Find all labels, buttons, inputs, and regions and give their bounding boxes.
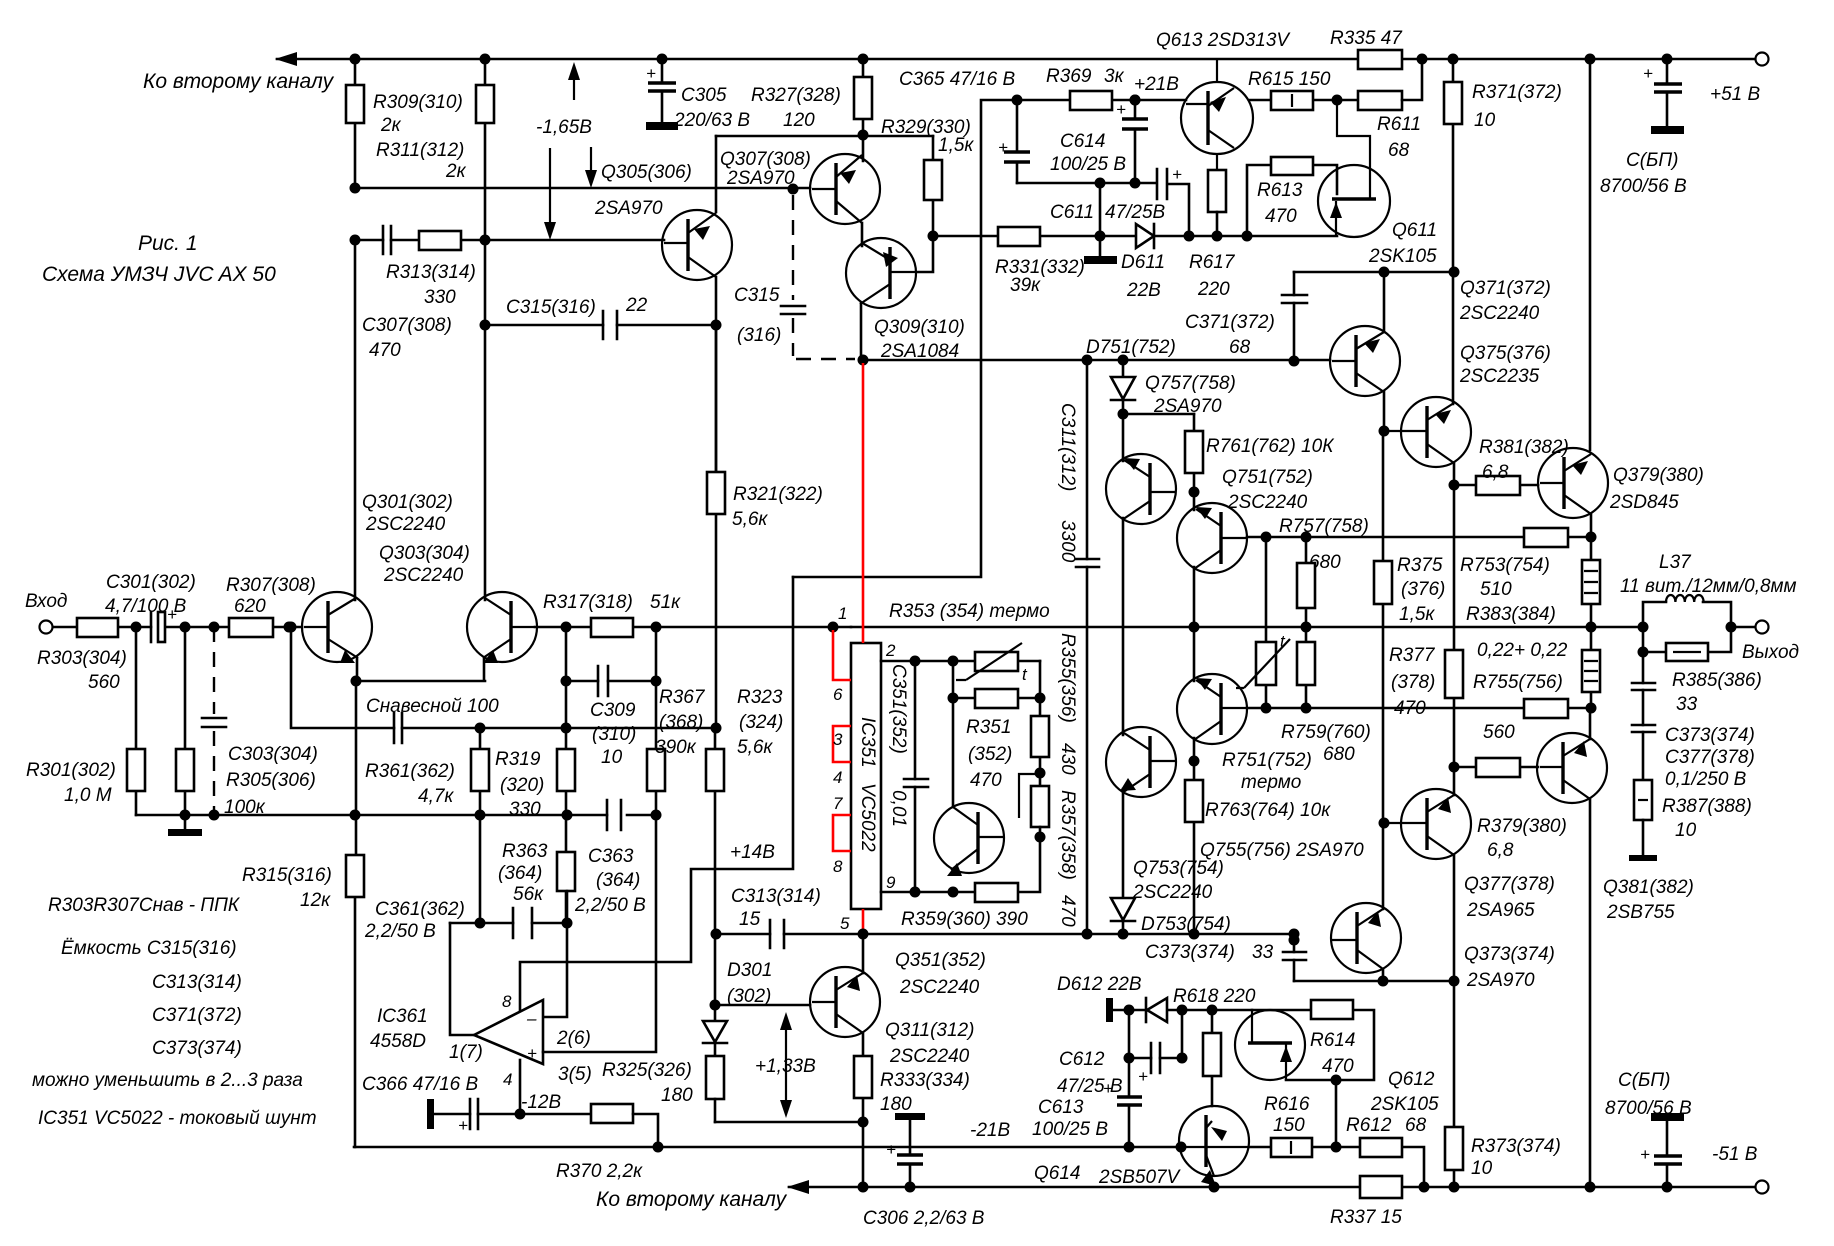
- thermistor R353: [953, 660, 1040, 663]
- svg-text:R755(756): R755(756): [1473, 672, 1563, 693]
- resistor R387: [1634, 780, 1652, 820]
- transistor Q611 (FET): [1318, 165, 1390, 237]
- capacitor C361: [450, 922, 567, 925]
- svg-text:можно уменьшить в 2...3 раза: можно уменьшить в 2...3 раза: [32, 1070, 303, 1091]
- svg-text:2SK105: 2SK105: [1368, 246, 1437, 267]
- svg-text:7: 7: [833, 794, 843, 813]
- resistor R355 (vertical): [1039, 698, 1042, 786]
- resistor R763: [1193, 761, 1196, 934]
- svg-text:220/63 В: 220/63 В: [673, 110, 750, 131]
- capacitor C373/C377 output: [1642, 652, 1645, 780]
- wire: pin9 line: [881, 891, 975, 894]
- resistor R370: [591, 1104, 633, 1123]
- svg-text:R335 47: R335 47: [1330, 28, 1403, 49]
- svg-text:(316): (316): [737, 325, 781, 346]
- wire: x716 Q305 collector: [715, 136, 718, 212]
- wire: Q373 C/E x1590: [1589, 708, 1592, 1187]
- svg-text:2SC2240: 2SC2240: [1459, 303, 1540, 324]
- svg-text:(378): (378): [1391, 672, 1435, 693]
- svg-text:10: 10: [1471, 1158, 1493, 1179]
- transistor Q753: [1177, 674, 1247, 744]
- svg-text:1,5к: 1,5к: [938, 135, 974, 156]
- svg-text:4,7/100 В: 4,7/100 В: [105, 596, 187, 617]
- svg-text:С(БП): С(БП): [1618, 1070, 1671, 1091]
- svg-text:+: +: [1116, 100, 1126, 119]
- diode D751: [1122, 360, 1125, 377]
- resistor R379: [1454, 766, 1538, 769]
- trimmer R357: [1031, 786, 1049, 827]
- svg-text:470: 470: [1057, 895, 1078, 927]
- wire: red pins7-8: [833, 815, 851, 851]
- resistor R361: [479, 728, 482, 815]
- svg-text:+51 В: +51 В: [1710, 84, 1761, 105]
- wire: C315-22 line y=325: [485, 324, 716, 327]
- transistor Q351: [934, 803, 1004, 873]
- svg-text:R753(754): R753(754): [1460, 555, 1550, 576]
- svg-text:470: 470: [1322, 1056, 1354, 1077]
- svg-text:L37: L37: [1659, 552, 1692, 573]
- svg-text:R369: R369: [1046, 66, 1092, 87]
- wire: Q371 C/E x1384: [1383, 272, 1386, 431]
- transistor Q751: [1177, 503, 1247, 573]
- svg-text:2SA965: 2SA965: [1466, 900, 1535, 921]
- svg-text:12к: 12к: [300, 890, 331, 911]
- wire: x716 Q305 emitter down: [715, 277, 718, 472]
- resistor R359: [975, 883, 1018, 902]
- svg-text:11 вит./12мм/0,8мм: 11 вит./12мм/0,8мм: [1620, 576, 1797, 597]
- svg-text:R379(380): R379(380): [1477, 816, 1567, 837]
- svg-text:1: 1: [838, 604, 847, 623]
- svg-text:2SC2240: 2SC2240: [383, 565, 464, 586]
- svg-text:IC361: IC361: [377, 1006, 428, 1027]
- resistor R305: [184, 627, 187, 815]
- capacitor C315 dashed branch plates: [781, 306, 805, 314]
- transistor Q373: [1537, 733, 1607, 803]
- svg-text:100/25 В: 100/25 В: [1032, 1119, 1108, 1140]
- wire: feedback rail y=815: [136, 814, 656, 817]
- capacitor C612: [1129, 1010, 1182, 1058]
- svg-text:Выход: Выход: [1742, 642, 1799, 663]
- resistor R323: [714, 728, 717, 1005]
- svg-text:Q612: Q612: [1388, 1069, 1435, 1090]
- svg-text:470: 470: [970, 770, 1002, 791]
- svg-text:-51 В: -51 В: [1712, 1144, 1758, 1165]
- svg-text:С(БП): С(БП): [1626, 150, 1679, 171]
- svg-text:Ко второму каналу: Ко второму каналу: [596, 1188, 788, 1211]
- svg-text:C305: C305: [681, 85, 727, 106]
- svg-text:2,2/50 В: 2,2/50 В: [364, 921, 436, 942]
- svg-text:R355(356): R355(356): [1057, 633, 1078, 723]
- svg-text:Q611: Q611: [1392, 220, 1437, 241]
- svg-text:2SC2235: 2SC2235: [1459, 366, 1540, 387]
- svg-text:R373(374): R373(374): [1471, 1136, 1561, 1157]
- transistor Q307: [810, 154, 880, 224]
- terminal input: [40, 621, 53, 634]
- svg-text:R303R307Снав - ППК: R303R307Снав - ППК: [48, 895, 241, 916]
- svg-text:R315(316): R315(316): [242, 865, 332, 886]
- svg-text:180: 180: [880, 1094, 912, 1115]
- resistor R303: [77, 618, 118, 637]
- wire: y414: [1123, 413, 1194, 416]
- svg-text:4: 4: [503, 1070, 512, 1089]
- svg-text:R325(326): R325(326): [602, 1060, 692, 1081]
- wire: pin4: [519, 1060, 522, 1114]
- svg-text:+: +: [998, 138, 1008, 157]
- svg-text:R614: R614: [1310, 1030, 1355, 1051]
- svg-text:10: 10: [1474, 110, 1496, 131]
- svg-text:R305(306): R305(306): [226, 770, 316, 791]
- capacitor C351: [914, 661, 917, 892]
- svg-text:R327(328): R327(328): [751, 85, 841, 106]
- svg-text:Q755(756) 2SA970: Q755(756) 2SA970: [1200, 840, 1364, 861]
- svg-text:39к: 39к: [1010, 275, 1041, 296]
- svg-text:C306 2,2/63 В: C306 2,2/63 В: [863, 1208, 985, 1229]
- svg-text:C363: C363: [588, 846, 634, 867]
- svg-text:R317(318): R317(318): [543, 592, 633, 613]
- svg-text:Схема УМЗЧ JVC AX 50: Схема УМЗЧ JVC AX 50: [42, 263, 276, 286]
- svg-text:Q614: Q614: [1034, 1163, 1080, 1184]
- svg-text:2SK105: 2SK105: [1370, 1094, 1439, 1115]
- transistor Q371: [1330, 326, 1400, 396]
- svg-text:C371(372): C371(372): [1185, 312, 1275, 333]
- svg-text:Q377(378): Q377(378): [1464, 874, 1555, 895]
- wire: y272: [1294, 271, 1454, 274]
- svg-text:Q379(380): Q379(380): [1613, 465, 1704, 486]
- svg-text:2SA970: 2SA970: [726, 168, 795, 189]
- resistor R761: [1193, 414, 1196, 492]
- thermistor R751: [1265, 537, 1268, 708]
- svg-text:2SA970: 2SA970: [1153, 396, 1222, 417]
- svg-text:220: 220: [1197, 279, 1230, 300]
- svg-text:120: 120: [783, 110, 815, 131]
- svg-text:620: 620: [234, 596, 266, 617]
- wire: x485 down to Q303 collector: [484, 240, 487, 600]
- wire: Snavesnoy feedback y=728: [291, 627, 716, 728]
- terminal +51V: [1756, 53, 1769, 66]
- svg-text:68: 68: [1229, 337, 1251, 358]
- transistor Q612 (FET): [1235, 1010, 1305, 1080]
- resistor R363: [565, 815, 568, 923]
- svg-text:C311(312): C311(312): [1057, 403, 1078, 491]
- svg-text:1(7): 1(7): [449, 1042, 483, 1063]
- resistor R757: [1305, 537, 1308, 627]
- transistor Q309: [846, 238, 916, 308]
- svg-text:+: +: [1640, 1145, 1650, 1164]
- svg-text:390к: 390к: [655, 737, 697, 758]
- svg-text:–: –: [526, 1009, 537, 1028]
- resistor R755: [1524, 699, 1568, 718]
- resistor R333: [862, 1033, 865, 1122]
- dashed C315 branch: [793, 195, 855, 359]
- svg-text:R618 220: R618 220: [1173, 986, 1256, 1007]
- svg-text:Q613 2SD313V: Q613 2SD313V: [1156, 30, 1291, 51]
- svg-text:+: +: [886, 1140, 896, 1159]
- resistor R335: [1358, 50, 1402, 69]
- wire: Q311 base: [715, 1004, 810, 1007]
- svg-text:2SC2240: 2SC2240: [1132, 882, 1213, 903]
- capacitor C363: [607, 800, 621, 830]
- svg-text:R751(752): R751(752): [1222, 750, 1312, 771]
- svg-text:6: 6: [833, 685, 843, 704]
- wire: red pin5: [862, 909, 865, 931]
- wire: Q307 base line y=188: [355, 187, 810, 190]
- wire: bottom -51V rail: [789, 1186, 1755, 1189]
- op-amp IC361: [474, 1000, 543, 1064]
- svg-text:330: 330: [424, 287, 456, 308]
- svg-text:R387(388): R387(388): [1662, 796, 1752, 817]
- svg-text:R613: R613: [1257, 180, 1303, 201]
- resistor R614: [1252, 1010, 1374, 1080]
- svg-text:Ко второму каналу: Ко второму каналу: [143, 70, 335, 93]
- arrowhead top rail left: [275, 52, 297, 66]
- svg-text:470: 470: [369, 340, 401, 361]
- svg-text:180: 180: [661, 1085, 693, 1106]
- svg-text:R309(310): R309(310): [373, 92, 463, 113]
- svg-text:2к: 2к: [445, 161, 467, 182]
- svg-text:(364): (364): [596, 870, 640, 891]
- svg-text:D611: D611: [1121, 252, 1165, 273]
- svg-text:R321(322): R321(322): [733, 484, 823, 505]
- svg-text:9: 9: [886, 873, 896, 892]
- wire: y183 line: [1017, 182, 1156, 185]
- wire: Q351 collector: [952, 698, 955, 807]
- resistor R325: [706, 1056, 724, 1099]
- resistor R331: [998, 227, 1040, 246]
- svg-text:+21В: +21В: [1134, 74, 1179, 95]
- resistor R311: [484, 59, 487, 240]
- svg-text:3: 3: [833, 730, 843, 749]
- svg-text:R357(358): R357(358): [1057, 790, 1078, 880]
- svg-text:430: 430: [1057, 743, 1078, 775]
- wire: Q377 C/E: [1453, 767, 1456, 982]
- svg-text:R367: R367: [659, 687, 706, 708]
- svg-text:R361(362): R361(362): [365, 761, 455, 782]
- capacitor C373-33: [1293, 934, 1296, 981]
- svg-text:Q311(312): Q311(312): [885, 1020, 974, 1041]
- svg-text:C366 47/16 В: C366 47/16 В: [362, 1074, 479, 1095]
- svg-text:-1,65В: -1,65В: [536, 117, 592, 138]
- transistor Q614: [1179, 1106, 1249, 1176]
- svg-text:C301(302): C301(302): [106, 572, 196, 593]
- svg-text:C373(374): C373(374): [152, 1038, 242, 1059]
- resistor R351 (box under thermistor): [953, 661, 1040, 698]
- svg-text:Q753(754): Q753(754): [1133, 858, 1224, 879]
- resistor R313: [419, 231, 461, 250]
- svg-text:Q381(382): Q381(382): [1603, 877, 1694, 898]
- wire: y1122 and down to rail: [715, 1122, 863, 1187]
- svg-text:R761(762) 10К: R761(762) 10К: [1206, 436, 1335, 457]
- resistor R616: [1249, 1146, 1336, 1149]
- svg-text:68: 68: [1388, 140, 1410, 161]
- wire: Q305 base line y=240: [355, 239, 664, 242]
- svg-text:-12В: -12В: [521, 1092, 561, 1113]
- svg-text:R763(764) 10к: R763(764) 10к: [1205, 800, 1331, 821]
- ground: C611 ground: [1099, 183, 1102, 256]
- resistor R612: [1336, 1147, 1424, 1187]
- svg-text:R757(758): R757(758): [1279, 516, 1369, 537]
- svg-text:R383(384): R383(384): [1466, 604, 1556, 625]
- svg-text:56к: 56к: [513, 884, 544, 905]
- svg-text:(324): (324): [739, 712, 783, 733]
- svg-text:R616: R616: [1264, 1094, 1310, 1115]
- wire: emitter coupling y=687: [356, 658, 485, 681]
- svg-text:470: 470: [1265, 206, 1297, 227]
- svg-text:R381(382): R381(382): [1479, 437, 1569, 458]
- svg-text:10: 10: [1675, 820, 1697, 841]
- resistor R377: [1445, 650, 1463, 698]
- svg-text:C309: C309: [590, 700, 636, 721]
- svg-text:8700/56 В: 8700/56 В: [1600, 176, 1687, 197]
- svg-text:2,2/50 В: 2,2/50 В: [574, 895, 646, 916]
- svg-text:R759(760): R759(760): [1281, 722, 1371, 743]
- svg-text:3к: 3к: [1104, 66, 1125, 87]
- resistor R367: [655, 681, 658, 815]
- wire: red collector feed to IC pin1: [862, 363, 865, 643]
- svg-text:+: +: [1172, 165, 1182, 184]
- ground: [184, 815, 187, 829]
- svg-text:0,01: 0,01: [888, 790, 909, 827]
- svg-text:510: 510: [1480, 579, 1512, 600]
- svg-text:10: 10: [601, 747, 623, 768]
- svg-text:(376): (376): [1401, 579, 1445, 600]
- svg-text:R313(314): R313(314): [386, 262, 476, 283]
- svg-text:5: 5: [840, 914, 850, 933]
- svg-text:термо: термо: [1241, 772, 1301, 793]
- capacitor C366: [427, 1099, 434, 1129]
- svg-text:+: +: [1138, 1067, 1148, 1086]
- wire: pin2 line: [881, 660, 953, 663]
- svg-text:IC351: IC351: [857, 717, 878, 768]
- svg-text:R612: R612: [1346, 1115, 1392, 1136]
- svg-text:2(6): 2(6): [556, 1028, 591, 1049]
- svg-text:+14В: +14В: [730, 842, 775, 863]
- svg-text:R611: R611: [1377, 114, 1421, 135]
- resistor R373: [1453, 981, 1456, 1187]
- wire: red pin6 tap: [833, 630, 851, 680]
- transistor Q-low (2SA970 pair): [1331, 903, 1401, 973]
- transistor Q301: [302, 592, 372, 662]
- capacitor C303 dashed branch: [213, 627, 215, 815]
- svg-text:2SB507V: 2SB507V: [1098, 1167, 1182, 1188]
- node: rail junctions: [350, 54, 361, 65]
- svg-text:R351: R351: [966, 717, 1011, 738]
- transistor Q375: [1401, 397, 1471, 467]
- svg-text:VC5022: VC5022: [857, 783, 878, 852]
- svg-text:Q751(752): Q751(752): [1222, 467, 1313, 488]
- resistor wirewound lower: [1590, 627, 1593, 708]
- wire: common rail y=1147: [354, 1146, 1179, 1149]
- svg-text:Q307(308): Q307(308): [720, 149, 811, 170]
- svg-text:C371(372): C371(372): [152, 1005, 242, 1026]
- resistor R383 (wirewound): [1590, 514, 1593, 627]
- transistor Q613: [1181, 82, 1253, 154]
- transistor Q757: [1106, 454, 1176, 524]
- svg-text:6,8: 6,8: [1487, 840, 1514, 861]
- wire: Q303 base node: [535, 626, 851, 629]
- svg-text:22: 22: [625, 295, 648, 316]
- resistor R753: [1524, 528, 1568, 547]
- svg-text:R333(334): R333(334): [880, 1070, 970, 1091]
- svg-text:5,6к: 5,6к: [732, 509, 768, 530]
- svg-text:R337 15: R337 15: [1330, 1207, 1402, 1228]
- svg-text:C611: C611: [1050, 202, 1094, 223]
- svg-text:C361(362): C361(362): [375, 899, 465, 920]
- svg-text:2SD845: 2SD845: [1609, 492, 1679, 513]
- svg-text:C315(316): C315(316): [506, 297, 596, 318]
- svg-text:R371(372): R371(372): [1472, 82, 1562, 103]
- svg-text:Ёмкость С315(316): Ёмкость С315(316): [61, 938, 237, 959]
- svg-text:2SC2240: 2SC2240: [365, 514, 446, 535]
- svg-text:C313(314): C313(314): [731, 886, 821, 907]
- wire: x1194 Q753 C/E: [1193, 627, 1196, 761]
- svg-text:8: 8: [833, 857, 843, 876]
- resistor R321: [715, 325, 718, 728]
- svg-text:(364): (364): [498, 863, 542, 884]
- capacitor C313: [770, 920, 784, 948]
- resistor R337: [1360, 1176, 1402, 1198]
- svg-text:2SC2240: 2SC2240: [889, 1046, 970, 1067]
- svg-text:R617: R617: [1189, 252, 1236, 273]
- svg-text:R353 (354) термо: R353 (354) термо: [889, 601, 1050, 622]
- resistor R319: [565, 681, 568, 815]
- svg-text:R323: R323: [737, 687, 783, 708]
- resistor R615: [1250, 99, 1358, 102]
- terminal bar D612 line: [1106, 998, 1113, 1022]
- inductor L37: [1643, 602, 1731, 627]
- transistor Q379: [1538, 448, 1608, 518]
- svg-text:560: 560: [88, 672, 120, 693]
- svg-text:C315: C315: [734, 285, 780, 306]
- resistor R375: [1382, 431, 1385, 823]
- capacitor C(BP) bottom: [1651, 1113, 1684, 1121]
- wire: op-amp output loop: [450, 923, 474, 1035]
- capacitor C613: [1128, 1010, 1131, 1147]
- svg-text:Q373(374): Q373(374): [1464, 944, 1555, 965]
- capacitor C614 left: [1016, 100, 1019, 183]
- capacitor C315(316) 22: [603, 311, 617, 339]
- capacitor C307: [383, 226, 391, 254]
- resistor R307: [229, 618, 273, 637]
- wire: y236 bias line: [933, 235, 1337, 238]
- resistor R617: [1208, 170, 1226, 212]
- svg-text:100/25 В: 100/25 В: [1050, 154, 1126, 175]
- svg-text:D301: D301: [727, 960, 772, 981]
- wire: right bus x=1590: [1589, 59, 1592, 450]
- capacitor C305: [661, 59, 664, 122]
- wire: y360 to Q371 base: [863, 359, 1330, 362]
- wire: minus input loop: [543, 891, 567, 1017]
- resistor R381: [1454, 484, 1538, 487]
- wire: main mid rail left part: [53, 626, 302, 629]
- svg-text:Снавесной 100: Снавесной 100: [366, 696, 499, 717]
- svg-text:150: 150: [1273, 1115, 1305, 1136]
- wire: plus input: [543, 815, 656, 1052]
- capacitor C306: [895, 1113, 925, 1120]
- IC351 box: [851, 643, 881, 909]
- resistor R618: [1211, 1010, 1214, 1106]
- wire: driver line y=537: [1247, 536, 1591, 539]
- resistor R327: [862, 59, 865, 161]
- wire: y981: [1294, 980, 1454, 983]
- svg-text:51к: 51к: [650, 592, 681, 613]
- resistor R613: [1247, 165, 1337, 236]
- resistor R759: [1305, 627, 1308, 708]
- svg-text:R311(312): R311(312): [376, 140, 464, 161]
- svg-text:680: 680: [1323, 744, 1355, 765]
- wire: Q309 emitter down to node: [860, 303, 863, 360]
- transistor Q755: [1106, 727, 1176, 797]
- svg-text:22В: 22В: [1126, 280, 1161, 301]
